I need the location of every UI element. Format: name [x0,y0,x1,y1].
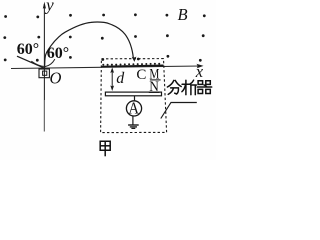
angle arc at origin [31,59,55,66]
svg-text:x: x [195,62,204,81]
y-axis arrow [43,2,46,9]
svg-text:60°: 60° [47,45,69,62]
trajectory arrowhead [132,57,137,62]
left 60-degree line [17,56,45,68]
x-axis arrow [196,64,203,69]
ground symbol [128,124,139,126]
x-axis [11,66,201,69]
field dots row 3 [4,55,202,62]
trajectory arc [45,22,134,68]
ammeter circle [126,101,141,116]
inner square [43,71,47,75]
char fen [167,80,173,87]
label fen-xi-qi (analyzer) hand-drawn [167,80,211,94]
char qi [198,81,203,85]
M underline [150,79,161,81]
leader line to label [161,103,197,119]
svg-text:60°: 60° [17,41,39,58]
y-axis [43,4,45,100]
svg-text:C: C [136,67,146,83]
hatch bumps on plate [102,63,160,66]
d dimension arrow [111,70,113,89]
dashed analyzer box [101,59,167,133]
field dots row 1 [4,13,206,18]
label jia (figure label) hand-drawn [100,141,110,156]
wire plate to ammeter [134,96,136,101]
bottom plate N (bar) [105,92,161,96]
top plate C (thick with hatch) [102,65,164,66]
svg-text:d: d [116,70,125,87]
N underline [149,91,160,93]
svg-text:B: B [177,5,187,24]
svg-text:A: A [128,100,139,118]
wire ammeter to ground [132,116,134,125]
source square at origin [39,69,49,78]
char xi [182,83,190,85]
svg-text:y: y [44,0,54,15]
svg-text:O: O [49,68,61,87]
field dots row 2 [3,34,204,39]
